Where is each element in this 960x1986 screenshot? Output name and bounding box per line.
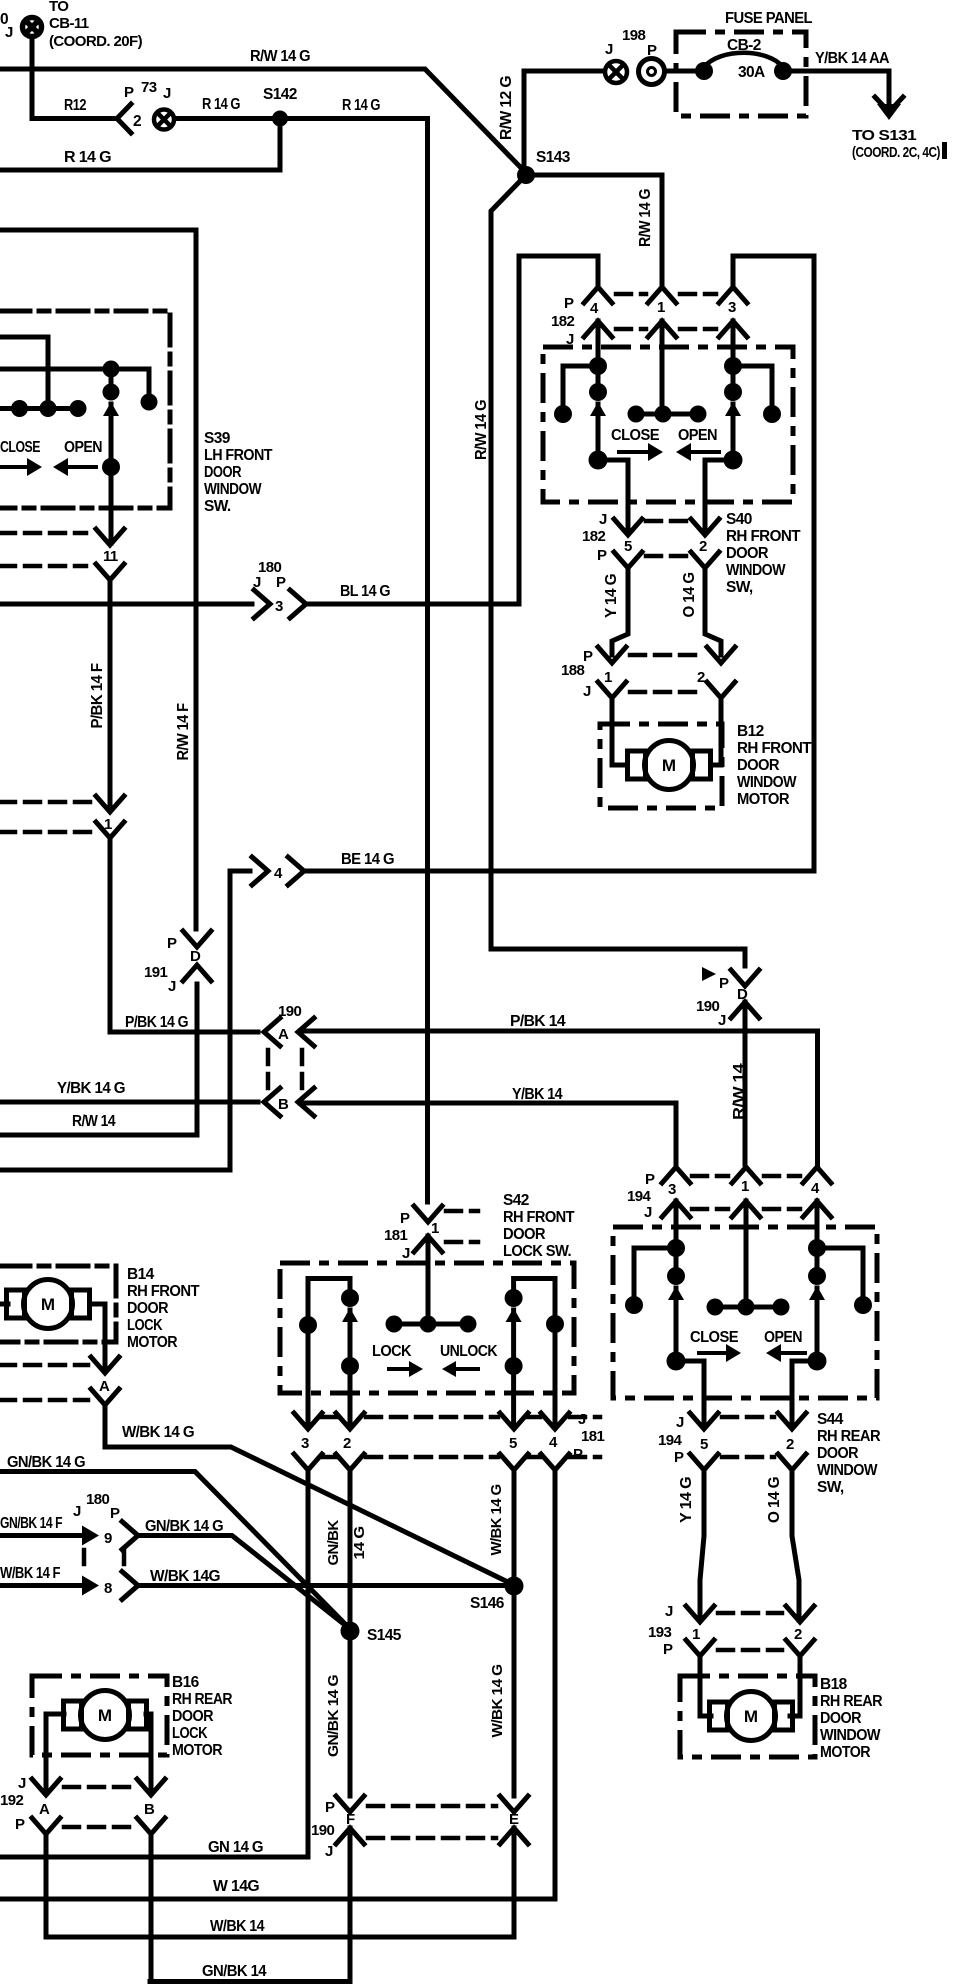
wire GN/BK 14 G from pin 9 to S145	[140, 1536, 350, 1630]
svg-text:W/BK 14 G: W/BK 14 G	[489, 1665, 506, 1738]
circuit breaker CB-2 30A	[695, 62, 713, 80]
svg-text:B18: B18	[820, 1676, 848, 1693]
svg-text:P: P	[325, 1799, 335, 1816]
wire from grommet down to R12 wire	[32, 38, 113, 119]
svg-text:WINDOW: WINDOW	[726, 562, 786, 579]
S44 pin4 contact column	[808, 1239, 826, 1257]
wire GN/BK 14 G from S145 to connector 190-F	[348, 1631, 353, 1796]
connector 182 pin 5	[614, 519, 642, 535]
svg-text:5: 5	[700, 1436, 708, 1453]
svg-text:P: P	[663, 1641, 673, 1658]
S40 close throw wire	[598, 460, 628, 533]
wire R/W 14 G from S143 to S40 pin 1	[526, 175, 662, 284]
svg-text:A: A	[278, 1026, 289, 1043]
connector 181 pin 5 bottom	[500, 1413, 528, 1429]
svg-text:P: P	[573, 1446, 583, 1463]
svg-text:WINDOW: WINDOW	[817, 1462, 878, 1479]
svg-text:R 14 G: R 14 G	[202, 96, 240, 113]
svg-text:4: 4	[811, 1180, 820, 1197]
svg-text:1: 1	[741, 1178, 749, 1195]
connector 181 pin 4 bottom	[541, 1413, 569, 1429]
svg-text:J: J	[402, 1245, 410, 1262]
wire P/BK 14 F down to connector 1	[108, 580, 113, 810]
svg-text:R/W 14 G: R/W 14 G	[637, 189, 654, 247]
dashed connector 192 rows	[64, 1785, 134, 1790]
svg-text:R 14 G: R 14 G	[342, 97, 380, 114]
svg-text:R/W 14 G: R/W 14 G	[250, 48, 311, 65]
svg-text:B16: B16	[172, 1674, 200, 1691]
S44 left contact branch	[634, 1248, 676, 1297]
dashed bracket 180	[82, 1550, 87, 1572]
svg-text:DOOR: DOOR	[204, 464, 241, 481]
svg-text:P/BK 14 G: P/BK 14 G	[125, 1014, 188, 1031]
svg-text:A: A	[39, 1801, 50, 1818]
svg-text:5: 5	[624, 538, 632, 555]
svg-text:DOOR: DOOR	[820, 1710, 861, 1727]
svg-text:2: 2	[697, 669, 705, 686]
connector 194 pin 4	[803, 1167, 831, 1183]
wire BE 14 G continues to S40 pin 3	[306, 256, 814, 871]
svg-text:SW.: SW.	[204, 498, 231, 515]
svg-text:FUSE PANEL: FUSE PANEL	[725, 10, 812, 27]
svg-text:W/BK 14G: W/BK 14G	[150, 1568, 221, 1585]
connector 193 pin 2	[786, 1606, 814, 1622]
dashed connector 190 F-E rows	[368, 1804, 496, 1809]
S44 contact row middle	[715, 1305, 781, 1310]
connector 180 pin 9	[82, 1526, 99, 1546]
S40 right contact branch	[733, 366, 772, 406]
wire P/BK 14 G to connector 190-A	[110, 838, 258, 1032]
S42 left outer contact	[299, 1316, 317, 1334]
svg-text:BE 14 G: BE 14 G	[341, 851, 395, 868]
svg-text:S42: S42	[503, 1192, 529, 1209]
S44 open throw wire	[792, 1361, 817, 1427]
grommet 73	[154, 110, 174, 130]
wire W/BK 14 G pin5 to S146	[512, 1470, 517, 1584]
connector 190-A	[264, 1018, 280, 1046]
svg-text:P: P	[110, 1505, 120, 1522]
connector pin 1 inline	[96, 796, 124, 812]
wire R/W 14 from left to connector 191	[0, 984, 197, 1135]
wire Y/BK 14 G from left	[0, 1100, 258, 1105]
svg-text:M: M	[662, 756, 676, 775]
svg-text:CB-11: CB-11	[49, 15, 89, 32]
arrow TO S131	[877, 104, 901, 120]
connector 194 pin 1	[732, 1167, 760, 1183]
S40 switch box	[543, 347, 793, 502]
svg-text:R/W 12 G: R/W 12 G	[498, 75, 515, 140]
svg-text:S143: S143	[536, 149, 571, 166]
svg-text:190: 190	[696, 998, 719, 1015]
svg-text:J: J	[644, 1204, 652, 1221]
S44 pin3 contact column	[667, 1239, 685, 1257]
svg-text:Y 14 G: Y 14 G	[603, 573, 620, 618]
connector 194 pin 5 bottom	[690, 1413, 718, 1429]
svg-text:RH FRONT: RH FRONT	[726, 528, 801, 545]
connector 194 pin 2 bottom	[778, 1413, 806, 1429]
svg-text:D: D	[190, 948, 201, 965]
wire R 14 G from S142 right and down to connector 181-1	[280, 119, 428, 1203]
svg-text:GN/BK 14 G: GN/BK 14 G	[145, 1518, 224, 1535]
svg-text:GN/BK 14 G: GN/BK 14 G	[7, 1454, 86, 1471]
wire R/W 14 F from left edge down to connector 191-D	[0, 230, 196, 929]
svg-text:193: 193	[648, 1624, 671, 1641]
svg-text:P: P	[645, 1171, 655, 1188]
S42 contact row middle	[394, 1322, 468, 1327]
dashed connector 182 bottom rows	[646, 519, 688, 524]
svg-text:W/BK 14 G: W/BK 14 G	[488, 1485, 505, 1556]
svg-text:UNLOCK: UNLOCK	[440, 1343, 498, 1360]
svg-text:2: 2	[786, 1436, 794, 1453]
svg-text:188: 188	[561, 662, 584, 679]
wire O 14 G to motor B18	[792, 1470, 799, 1620]
svg-text:P/BK 14 F: P/BK 14 F	[89, 663, 106, 728]
svg-text:MOTOR: MOTOR	[737, 791, 789, 808]
wire W/BK 14G from pin 8 to S146	[140, 1583, 512, 1588]
connector 190-B	[264, 1088, 280, 1116]
S39 contact row	[0, 406, 78, 411]
connector 190-D	[731, 970, 759, 986]
svg-text:W/BK 14 F: W/BK 14 F	[0, 1565, 60, 1582]
wire S39 output to pin 11	[109, 467, 114, 543]
svg-text:GN/BK 14: GN/BK 14	[202, 1963, 267, 1980]
dashed connector line 182 J row	[616, 327, 646, 332]
svg-text:191: 191	[144, 964, 167, 981]
svg-text:8: 8	[104, 1580, 112, 1597]
connector 182 pin 4	[584, 287, 612, 303]
svg-text:DOOR: DOOR	[127, 1300, 168, 1317]
connector 180 pin 8	[82, 1576, 99, 1596]
svg-text:R/W 14: R/W 14	[731, 1063, 748, 1120]
svg-text:198: 198	[622, 27, 645, 44]
S40 pin4 contact column	[589, 357, 607, 375]
svg-text:3: 3	[728, 299, 736, 316]
svg-text:RH FRONT: RH FRONT	[737, 740, 812, 757]
svg-text:3: 3	[275, 598, 283, 615]
connector 182 pin 3	[719, 287, 747, 303]
svg-text:LOCK: LOCK	[372, 1343, 412, 1360]
svg-text:RH REAR: RH REAR	[820, 1693, 882, 1710]
svg-text:190: 190	[278, 1003, 301, 1020]
svg-text:3: 3	[668, 1181, 676, 1198]
svg-text:S145: S145	[367, 1627, 402, 1644]
svg-text:5: 5	[509, 1435, 517, 1452]
svg-text:S142: S142	[263, 86, 297, 103]
junction S143	[517, 166, 535, 184]
svg-text:194: 194	[658, 1432, 682, 1449]
svg-text:MOTOR: MOTOR	[172, 1742, 222, 1759]
svg-text:1: 1	[692, 1626, 700, 1643]
svg-text:P: P	[719, 975, 729, 992]
svg-text:DOOR: DOOR	[172, 1708, 213, 1725]
S42 pin2 contact column	[341, 1289, 359, 1307]
S40 pin3 contact column	[724, 357, 742, 375]
svg-text:P/BK 14: P/BK 14	[510, 1013, 566, 1030]
connector 182 pin 2	[691, 519, 719, 535]
svg-text:RH REAR: RH REAR	[172, 1691, 232, 1708]
svg-text:WINDOW: WINDOW	[820, 1727, 881, 1744]
svg-text:OPEN: OPEN	[678, 427, 717, 444]
wire GN/BK 14 G from left to S145	[0, 1472, 350, 1630]
svg-text:S44: S44	[817, 1411, 844, 1428]
dashed bracket 190 A-B	[266, 1050, 271, 1090]
wire W/BK 14 G from S146 to connector 190-E	[512, 1586, 517, 1796]
svg-text:(COORD. 2C, 4C): (COORD. 2C, 4C)	[852, 144, 940, 161]
S42 right outer contact	[546, 1315, 564, 1333]
svg-text:M: M	[744, 1707, 758, 1726]
junction S142	[272, 111, 288, 127]
svg-text:A: A	[99, 1378, 110, 1395]
svg-text:J: J	[599, 511, 607, 528]
svg-text:CLOSE: CLOSE	[611, 427, 659, 444]
svg-text:P: P	[674, 1449, 684, 1466]
connector 188 pin 2	[707, 647, 735, 663]
motor B18 box	[680, 1676, 815, 1757]
svg-text:30A: 30A	[738, 64, 765, 81]
S40 open throw wire	[705, 460, 733, 533]
svg-text:182: 182	[582, 528, 605, 545]
connector pin A of B14	[91, 1357, 119, 1373]
motor B12	[628, 741, 711, 790]
S40 contact row middle	[636, 412, 698, 417]
svg-text:J: J	[253, 574, 261, 591]
svg-text:14 G: 14 G	[351, 1527, 368, 1560]
svg-text:1: 1	[604, 669, 612, 686]
svg-text:M: M	[98, 1706, 112, 1725]
svg-text:S146: S146	[470, 1595, 505, 1612]
svg-text:WINDOW: WINDOW	[737, 774, 797, 791]
motor B12 wires	[612, 740, 627, 765]
wire GN/BK 14 G pin3 to GN 14 G	[0, 1470, 308, 1857]
svg-text:194: 194	[627, 1188, 651, 1205]
motor B14	[7, 1280, 90, 1329]
svg-text:J: J	[5, 24, 13, 41]
S39 wiper feed wire	[0, 367, 149, 372]
svg-text:GN/BK 14 F: GN/BK 14 F	[0, 1515, 62, 1532]
svg-text:S39: S39	[204, 430, 231, 447]
svg-text:DOOR: DOOR	[817, 1445, 858, 1462]
connector 188 pin 1	[598, 647, 626, 663]
svg-text:RH REAR: RH REAR	[817, 1428, 880, 1445]
connector 192 pin A	[32, 1779, 60, 1795]
svg-text:J: J	[578, 1411, 586, 1428]
svg-text:CLOSE: CLOSE	[690, 1329, 738, 1346]
svg-text:R/W 14: R/W 14	[72, 1113, 116, 1130]
svg-text:SW,: SW,	[817, 1479, 844, 1496]
dashed connector line 182 P row	[616, 292, 646, 297]
connector pin 4 inline BE	[252, 857, 268, 885]
svg-text:B: B	[144, 1801, 155, 1818]
wire R/W 14 G from S143 down-left to 190-D	[491, 175, 745, 966]
svg-text:2: 2	[699, 538, 707, 555]
svg-text:MOTOR: MOTOR	[820, 1744, 870, 1761]
svg-text:4: 4	[274, 865, 283, 882]
wire R/W 12 G from S143 up to grommet 198	[524, 71, 604, 175]
svg-text:J: J	[676, 1414, 684, 1431]
S42 right bridge	[514, 1279, 555, 1317]
svg-text:180: 180	[86, 1491, 109, 1508]
wire BE 14 G from left to connector 4	[0, 871, 250, 1170]
svg-text:S40: S40	[726, 511, 752, 528]
connector R12 pin 2 chevron	[117, 104, 131, 133]
svg-text:11: 11	[103, 548, 118, 565]
svg-text:Y/BK 14 AA: Y/BK 14 AA	[815, 50, 889, 67]
svg-text:CLOSE: CLOSE	[0, 439, 40, 456]
svg-text:DOOR: DOOR	[503, 1226, 545, 1243]
svg-text:P: P	[15, 1816, 25, 1833]
dashed connector 193 rows	[718, 1611, 782, 1616]
wire W/BK 14 G from B14 to S146	[105, 1405, 514, 1585]
svg-text:W/BK 14: W/BK 14	[210, 1918, 265, 1935]
connector 190-E	[500, 1796, 528, 1812]
svg-text:P: P	[400, 1210, 410, 1227]
svg-text:LH FRONT: LH FRONT	[204, 447, 273, 464]
grommet to CB-11	[23, 18, 42, 37]
svg-text:2: 2	[343, 1435, 351, 1452]
dashed connector 188 rows	[630, 653, 702, 658]
S39 wiper contact	[103, 361, 120, 378]
svg-text:O 14 G: O 14 G	[681, 572, 698, 618]
wire BL 14 G continues to S40 pin 4	[308, 256, 598, 604]
connector 193 pin 1	[686, 1606, 714, 1622]
S44 right contact branch	[817, 1248, 863, 1297]
svg-text:B12: B12	[737, 723, 764, 740]
svg-text:182: 182	[551, 313, 574, 330]
dashed connector 181 bottom rows	[322, 1415, 336, 1420]
wire R/W 14 G top horizontal to S143	[0, 69, 526, 173]
svg-text:181: 181	[384, 1227, 407, 1244]
svg-text:W/BK 14 G: W/BK 14 G	[122, 1424, 195, 1441]
svg-text:R 14 G: R 14 G	[64, 149, 112, 166]
svg-text:MOTOR: MOTOR	[127, 1334, 177, 1351]
motor B14 wires	[0, 1302, 8, 1307]
wire O 14 G	[705, 568, 721, 655]
motor B18 wires	[700, 1700, 711, 1716]
motor B16 box	[32, 1676, 167, 1755]
S39 output contact dot	[102, 458, 120, 476]
wire W/BK 14 F to connector 180-8	[0, 1583, 80, 1588]
svg-text:Y/BK 14 G: Y/BK 14 G	[57, 1080, 126, 1097]
dashed connector 194 rows	[692, 1174, 728, 1179]
svg-text:9: 9	[104, 1530, 112, 1547]
svg-text:GN/BK 14 G: GN/BK 14 G	[325, 1675, 342, 1757]
svg-text:OPEN: OPEN	[64, 439, 102, 456]
svg-text:OPEN: OPEN	[764, 1329, 802, 1346]
grommet P 198 ring	[639, 59, 665, 85]
S42 switch box	[280, 1263, 574, 1393]
wire P/BK 14 right to S44 pin 4	[300, 1031, 818, 1164]
connector 192 pin B	[137, 1779, 165, 1795]
connector 191-D	[183, 931, 211, 947]
svg-text:LOCK SW.: LOCK SW.	[503, 1243, 571, 1260]
svg-text:R/W 14 F: R/W 14 F	[175, 703, 192, 760]
svg-text:192: 192	[0, 1792, 23, 1809]
wire into fuse panel	[666, 69, 697, 74]
svg-text:Y 14 G: Y 14 G	[678, 1476, 695, 1523]
svg-text:M: M	[41, 1295, 55, 1314]
connector 194 pin 3	[662, 1167, 690, 1183]
svg-text:73: 73	[141, 79, 157, 96]
motor B16 wires	[46, 1714, 64, 1793]
dashed 181-1 stubs	[446, 1209, 478, 1214]
motor B14 box	[0, 1266, 116, 1342]
S40 left contact branch	[563, 366, 598, 406]
motor B12 box	[600, 724, 722, 808]
dashed connector 194 bottom rows	[722, 1415, 774, 1420]
wire R 14 G from S142 down-left	[0, 119, 280, 171]
wire BL 14 G from left to S40 pin 4	[0, 602, 252, 607]
connector 181 pin 1	[414, 1206, 442, 1222]
svg-text:P: P	[276, 574, 286, 591]
connector 181 pin 3 bottom	[294, 1413, 322, 1429]
svg-text:1: 1	[431, 1220, 439, 1237]
S44 close throw wire	[676, 1361, 704, 1427]
svg-text:J: J	[18, 1775, 26, 1792]
svg-text:P: P	[124, 84, 134, 101]
svg-text:BL 14 G: BL 14 G	[340, 583, 391, 600]
svg-text:GN/BK: GN/BK	[325, 1520, 342, 1566]
svg-text:1: 1	[657, 299, 665, 316]
svg-text:J: J	[163, 85, 171, 102]
motor B16	[64, 1691, 147, 1740]
svg-text:TO: TO	[49, 0, 69, 15]
svg-text:GN 14 G: GN 14 G	[208, 1839, 264, 1856]
svg-text:P: P	[583, 648, 593, 665]
wire Y 14 G	[612, 568, 628, 655]
svg-text:O 14 G: O 14 G	[766, 1476, 783, 1523]
motor B18	[710, 1692, 793, 1741]
svg-text:R/W 14 G: R/W 14 G	[473, 399, 490, 460]
S42 pin5 contact column	[505, 1289, 523, 1307]
svg-text:B: B	[278, 1096, 289, 1113]
svg-text:SW,: SW,	[726, 579, 753, 596]
wire GN/BK 14 F to connector 180-9	[0, 1533, 80, 1538]
svg-text:Y/BK 14: Y/BK 14	[512, 1086, 563, 1103]
svg-text:2: 2	[133, 113, 141, 130]
svg-text:J: J	[605, 41, 613, 58]
svg-text:RH FRONT: RH FRONT	[127, 1283, 200, 1300]
svg-text:B14: B14	[127, 1266, 155, 1283]
S44 switch box	[613, 1227, 877, 1398]
wire GN/BK 14 G pin2 to S145	[348, 1470, 353, 1628]
junction S145	[341, 1622, 360, 1641]
S42 left bridge	[308, 1279, 350, 1319]
svg-text:3: 3	[301, 1435, 309, 1452]
svg-text:P: P	[564, 295, 574, 312]
svg-text:DOOR: DOOR	[726, 545, 768, 562]
wire Y 14 G to motor B18	[700, 1470, 704, 1620]
svg-text:J: J	[325, 1843, 333, 1860]
svg-text:190: 190	[311, 1822, 334, 1839]
svg-text:RH FRONT: RH FRONT	[503, 1209, 575, 1226]
svg-text:2: 2	[794, 1626, 802, 1643]
S39 contact dot right	[147, 369, 152, 392]
svg-text:181: 181	[581, 1428, 604, 1445]
svg-text:4: 4	[549, 1434, 558, 1451]
svg-text:J: J	[168, 978, 176, 995]
svg-text:TO S131: TO S131	[852, 127, 916, 144]
connector 190-F	[336, 1796, 364, 1812]
wire W 14G pin4 down and left	[0, 1470, 555, 1899]
svg-text:P: P	[167, 935, 177, 952]
svg-text:P: P	[597, 547, 607, 564]
svg-text:J: J	[73, 1503, 81, 1520]
connector 180 pin 3 inline	[254, 590, 270, 618]
svg-text:J: J	[665, 1603, 673, 1620]
junction S146	[505, 1577, 524, 1596]
svg-text:WINDOW: WINDOW	[204, 481, 262, 498]
connector pin 11	[96, 529, 124, 545]
